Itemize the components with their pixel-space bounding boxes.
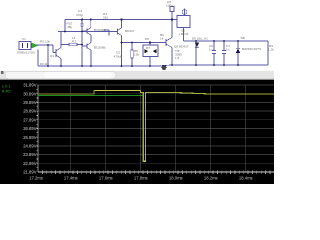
svg-text:Q1: Q1 xyxy=(50,54,54,58)
svg-text:V1: V1 xyxy=(22,37,26,41)
svg-text:BD437: BD437 xyxy=(125,29,135,33)
svg-text:Q5: Q5 xyxy=(174,45,178,49)
svg-text:1k: 1k xyxy=(72,36,76,40)
svg-text:SB: SB xyxy=(241,36,245,40)
svg-text:BC546B: BC546B xyxy=(94,28,106,32)
svg-text:2k2: 2k2 xyxy=(103,16,108,20)
svg-text:23.89V: 23.89V xyxy=(23,152,36,157)
svg-text:100n: 100n xyxy=(166,3,173,7)
svg-text:30.89V: 30.89V xyxy=(23,91,36,96)
svg-text:BD437: BD437 xyxy=(179,45,189,49)
svg-text:17.2ms: 17.2ms xyxy=(29,176,43,181)
svg-text:18.4ms: 18.4ms xyxy=(239,176,253,181)
svg-text:1.2k: 1.2k xyxy=(268,48,274,52)
svg-text:1.6: 1.6 xyxy=(175,56,180,60)
svg-text:470uF: 470uF xyxy=(114,54,123,58)
svg-text:22.89V: 22.89V xyxy=(23,161,36,166)
svg-text:15k: 15k xyxy=(134,53,139,57)
svg-text:29.89V: 29.89V xyxy=(23,100,36,105)
svg-text:26.89V: 26.89V xyxy=(23,126,36,131)
svg-text:R2: R2 xyxy=(72,40,76,44)
svg-text:BC556B: BC556B xyxy=(94,45,106,49)
svg-text:18.0ms: 18.0ms xyxy=(169,176,183,181)
svg-text:1n: 1n xyxy=(226,48,230,52)
svg-text:BZX84C15TS: BZX84C15TS xyxy=(242,47,261,51)
svg-text:25.89V: 25.89V xyxy=(23,135,36,140)
svg-text:24.89V: 24.89V xyxy=(23,144,36,149)
svg-text:1u: 1u xyxy=(209,48,213,52)
svg-text:SINE(0 2 50): SINE(0 2 50) xyxy=(17,50,35,54)
svg-text:31.89V: 31.89V xyxy=(23,83,36,88)
svg-text:R5: R5 xyxy=(40,40,44,44)
svg-text:21.89V: 21.89V xyxy=(23,170,36,175)
svg-text:470p: 470p xyxy=(76,13,83,17)
svg-text:17.4ms: 17.4ms xyxy=(64,176,78,181)
svg-text:R3 4k7: R3 4k7 xyxy=(40,62,49,66)
svg-text:D5: D5 xyxy=(145,37,149,41)
svg-text:8 #O: 8 #O xyxy=(2,88,11,93)
svg-text:1k: 1k xyxy=(160,36,164,40)
svg-text:R7: R7 xyxy=(146,46,150,50)
svg-text:D6 LBL_A1: D6 LBL_A1 xyxy=(192,37,208,41)
svg-text:17.6ms: 17.6ms xyxy=(99,176,113,181)
svg-text:45k: 45k xyxy=(67,25,72,29)
svg-text:LM741: LM741 xyxy=(179,32,189,36)
svg-text:18.2ms: 18.2ms xyxy=(204,176,218,181)
svg-text:28.89V: 28.89V xyxy=(23,109,36,114)
svg-text:17.8ms: 17.8ms xyxy=(134,176,148,181)
svg-text:27.89V: 27.89V xyxy=(23,117,36,122)
svg-text:10k: 10k xyxy=(45,40,50,44)
